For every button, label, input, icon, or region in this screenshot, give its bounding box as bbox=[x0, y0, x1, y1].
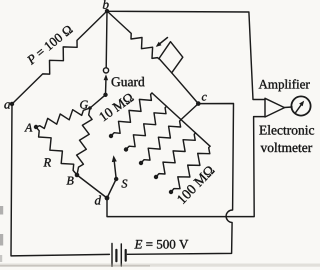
wire d to switch pivot S bbox=[107, 179, 116, 198]
scan streak left edge upper bbox=[0, 206, 3, 215]
wire a to left bottom corner and to battery bbox=[11, 104, 109, 256]
wire amplifier to voltmeter bbox=[285, 106, 293, 109]
selector switch S arm with arrow bbox=[114, 159, 116, 179]
battery E short plate 1 bbox=[115, 250, 117, 261]
bank resistor 2 bbox=[126, 106, 167, 149]
node G junction bbox=[88, 106, 92, 110]
wire guard dot to node G bbox=[90, 95, 106, 108]
label E = 500 V bbox=[134, 240, 188, 249]
label A bbox=[24, 124, 32, 132]
amplifier triangle U1 bbox=[265, 98, 285, 117]
resistor A-G (guard leakage) bbox=[36, 108, 90, 129]
scan streak left edge lower bbox=[0, 234, 3, 246]
electronic voltmeter meter circle bbox=[291, 96, 310, 115]
guard tap dot bbox=[103, 93, 107, 97]
label Guard bbox=[112, 77, 145, 86]
node A bbox=[34, 125, 38, 129]
battery E short plate 2 bbox=[125, 250, 127, 261]
node B bbox=[75, 173, 80, 178]
guard terminal open circle bbox=[103, 68, 108, 73]
stud contact 1 bbox=[109, 134, 113, 138]
wire b down to guard terminal circle bbox=[105, 11, 108, 68]
stud contact 5 bbox=[169, 190, 173, 194]
stud contact 3 bbox=[139, 161, 143, 165]
label a bbox=[4, 102, 10, 108]
label S bbox=[122, 180, 128, 188]
node b bbox=[105, 9, 109, 13]
wire B to d bbox=[77, 175, 107, 198]
label Electronic bbox=[259, 125, 314, 134]
switch S pivot dot bbox=[114, 177, 118, 181]
label 100 Mohm bbox=[177, 165, 215, 204]
wire c tap to resistor bank bus bbox=[181, 104, 198, 120]
label 10 Mohm bbox=[99, 93, 134, 122]
wire: amplifier lower input down and left to node d bbox=[107, 117, 265, 217]
battery E long plate 1 bbox=[111, 244, 113, 267]
stud contact 2 bbox=[124, 147, 128, 151]
guard switch blade with arrow bbox=[105, 77, 108, 95]
node a bbox=[10, 102, 14, 106]
scan smudge bottom edge bbox=[0, 264, 320, 267]
label G bbox=[80, 101, 88, 109]
wire box to node c bbox=[172, 73, 199, 104]
bus line joining tops of bank resistors bbox=[152, 93, 210, 146]
bank resistor 4 bbox=[156, 133, 196, 177]
wire top: node b to top-right corner, down to amplifier input bbox=[107, 11, 265, 99]
box element in b-c arm (rotated rectangle) bbox=[159, 42, 183, 73]
resistor P 100 ohm (arm a-b) bbox=[12, 11, 107, 104]
resistor arm b to box (zigzag) bbox=[107, 11, 159, 59]
voltmeter needle bbox=[296, 103, 303, 113]
label c bbox=[202, 95, 207, 101]
label Amplifier bbox=[259, 79, 310, 91]
bank resistor 1 (10 Mohm) bbox=[111, 93, 152, 136]
bank resistor 5 (100 Mohm) bbox=[171, 146, 210, 192]
label B bbox=[67, 177, 74, 185]
node d bbox=[105, 196, 110, 201]
resistor G-B (guard leakage) bbox=[77, 108, 93, 175]
wire c to right, down with hop over d-wire, to battery + bbox=[127, 104, 233, 255]
node c bbox=[196, 101, 201, 106]
label voltmeter bbox=[261, 143, 313, 152]
label R bbox=[43, 158, 50, 166]
stud contact 4 bbox=[154, 175, 158, 179]
label P = 100 ohm bbox=[26, 25, 73, 66]
label b bbox=[103, 0, 109, 9]
battery E long plate 2 bbox=[120, 244, 122, 266]
bank resistor 3 bbox=[141, 120, 181, 163]
label d bbox=[95, 195, 101, 204]
resistor R unknown (A-B) bbox=[36, 127, 77, 175]
arrow touching b-c arm resistor bbox=[158, 38, 168, 46]
